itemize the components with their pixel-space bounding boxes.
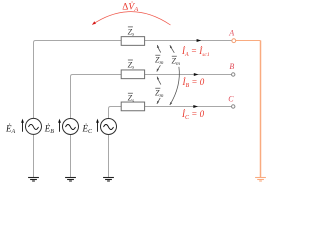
svg-text:Zs: Zs — [128, 27, 135, 37]
svg-text:Zm: Zm — [155, 89, 163, 99]
svg-text:C: C — [228, 94, 234, 103]
svg-text:İC = 0: İC = 0 — [181, 109, 205, 121]
svg-text:Zm: Zm — [172, 57, 180, 67]
svg-text:ĖA: ĖA — [5, 123, 16, 135]
svg-text:B: B — [229, 62, 234, 71]
svg-text:Zs: Zs — [128, 60, 135, 70]
svg-text:ĖB: ĖB — [44, 123, 55, 135]
svg-text:Zs: Zs — [128, 94, 135, 104]
svg-text:ĖC: ĖC — [82, 123, 94, 135]
svg-text:ΔV̇A: ΔV̇A — [122, 1, 138, 13]
svg-text:Zm: Zm — [155, 56, 163, 66]
svg-text:İB = 0: İB = 0 — [182, 77, 205, 89]
svg-text:A: A — [228, 28, 234, 37]
svg-text:İA = İsc1: İA = İsc1 — [181, 46, 210, 58]
